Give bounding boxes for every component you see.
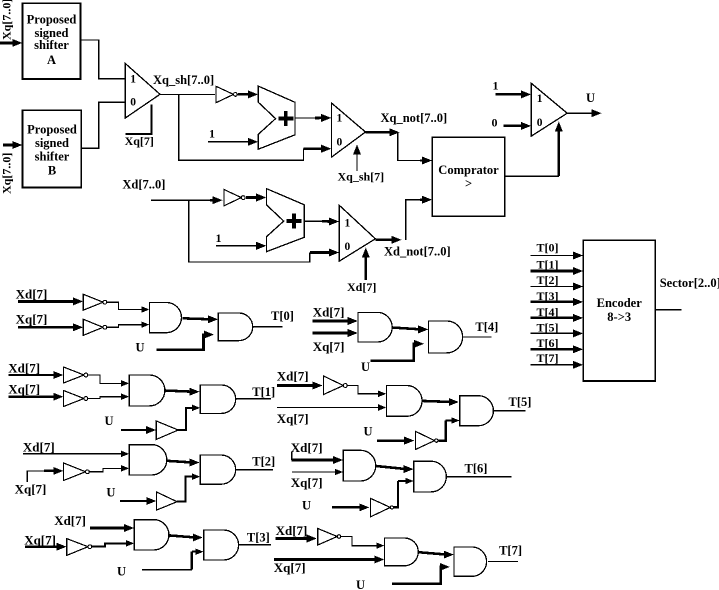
wire shifter B output to mux M1 input 0: [81, 102, 125, 148]
AND gate T3-G1: [134, 520, 169, 550]
svg-text:signed: signed: [35, 136, 69, 150]
svg-text:Xd[7]: Xd[7]: [313, 305, 345, 320]
wire T[2] output: [236, 469, 274, 471]
svg-text:T[5]: T[5]: [537, 320, 559, 334]
wire Xq[7] into AND gate T5-G1: [277, 407, 381, 409]
AND gate T7-G1: [385, 538, 419, 566]
wire buffer T5buf to AND gate T5-G2: [438, 421, 445, 441]
wire mux M4 select from Xd[7]: [365, 255, 367, 281]
AND gate T3-G2: [204, 530, 239, 560]
svg-text:T[0]: T[0]: [271, 309, 294, 323]
svg-text:Xd[7]: Xd[7]: [16, 287, 48, 302]
buffer T6buf (inverting): [370, 498, 390, 517]
svg-text:1: 1: [345, 218, 351, 230]
svg-text:U: U: [117, 565, 126, 579]
svg-text:T[5]: T[5]: [509, 395, 532, 409]
svg-text:shifter: shifter: [34, 38, 69, 52]
inverter T0b: [83, 319, 103, 335]
AND gate T4-G2: [428, 321, 462, 353]
wire inverter T1b to AND gate T1-G1: [88, 397, 124, 399]
svg-text:Xd[7]: Xd[7]: [8, 361, 40, 376]
svg-text:U: U: [356, 578, 365, 590]
block Proposed signed shifter A: [23, 3, 81, 79]
svg-text:Xq[7..0]: Xq[7..0]: [0, 0, 14, 40]
svg-text:Xd[7]: Xd[7]: [291, 440, 323, 455]
wire Xq[7] into AND gate T6-G1: [292, 471, 338, 473]
mux M2 (Xq_not select): [331, 103, 365, 157]
AND gate T7-G2: [454, 547, 487, 576]
svg-text:0: 0: [492, 116, 498, 130]
svg-text:Xd[7]: Xd[7]: [347, 280, 376, 294]
wire T[0] output: [253, 326, 283, 328]
wire buffer T6buf to AND gate T6-G2: [394, 481, 399, 507]
AND gate T5-G1: [386, 386, 422, 417]
svg-text:U: U: [302, 499, 311, 513]
svg-text:T[7]: T[7]: [499, 544, 522, 558]
wire Xq[7] into inverter T2a: [27, 471, 48, 482]
mux M1 (Xq_sh select): [125, 64, 160, 119]
wire adder A2 output to mux M4 input 1: [304, 220, 325, 222]
wire T[5] output: [493, 410, 525, 412]
svg-text:1: 1: [537, 93, 543, 105]
svg-text:Sector[2..0]: Sector[2..0]: [660, 276, 719, 290]
wire Xd[7] into AND gate T6-G1: [291, 452, 293, 460]
svg-text:Xq_not[7..0]: Xq_not[7..0]: [381, 111, 448, 125]
wire T3-G1 output to AND gate T3-G2: [169, 535, 196, 537]
wire T[4] into encoder: [530, 317, 576, 320]
AND gate T2-G2: [200, 455, 235, 484]
wire T2-G1 output to AND gate T2-G2: [167, 461, 193, 463]
block Encoder 8->3: [583, 240, 655, 381]
wire adder A1 output to mux M2 input 1: [295, 117, 318, 119]
wire Xd[7] into inverter T5a: [277, 384, 316, 387]
inverter T0a: [83, 294, 103, 310]
svg-text:0: 0: [337, 136, 343, 148]
wire constant 1 into adder A1: [208, 141, 251, 143]
svg-text:Xq[7]: Xq[7]: [291, 475, 323, 490]
wire U into AND gate T4-G2: [371, 344, 418, 361]
svg-text:Xd[7..0]: Xd[7..0]: [122, 178, 165, 192]
wire T[1] output: [236, 398, 271, 400]
wire U into AND gate T0-G2: [156, 335, 207, 350]
wire Xd[7] into AND gate T4-G1: [313, 320, 351, 323]
wire inverter T0a to AND gate T0-G1: [107, 302, 144, 309]
wire Xd[7] into inverter T1a: [8, 374, 56, 376]
wire T[6] into encoder: [530, 348, 576, 351]
svg-text:Xq[7]: Xq[7]: [313, 339, 345, 354]
svg-text:0: 0: [537, 117, 543, 129]
svg-text:U: U: [586, 91, 595, 105]
wire shifter A output to mux M1 input 1: [81, 40, 126, 79]
svg-text:Xq[7]: Xq[7]: [16, 312, 48, 327]
block Comprator >: [432, 137, 505, 216]
AND gate T1-G2: [200, 385, 235, 413]
wire T[6] output: [446, 476, 511, 478]
wire T[7] output: [488, 560, 518, 562]
svg-text:T[6]: T[6]: [465, 462, 488, 476]
wire U into buffer T1buf: [121, 429, 149, 431]
svg-text:Xq[7]: Xq[7]: [274, 560, 306, 575]
mux M3 (U select): [531, 83, 567, 136]
wire constant 1 into mux M3: [496, 93, 524, 96]
wire T7-G1 output to AND gate T7-G2: [418, 552, 447, 554]
wire Xd input to inverter I2: [151, 199, 214, 201]
svg-text:0: 0: [345, 241, 351, 253]
buffer T5buf (inverting): [416, 431, 435, 449]
wire encoder output Sector: [655, 309, 681, 311]
mux M4 (Xd_not select): [339, 205, 375, 261]
svg-text:T[4]: T[4]: [475, 320, 498, 334]
wire inverter T2a to AND gate T2-G1: [89, 468, 124, 471]
adder A2 (Xd path +1): [266, 189, 304, 252]
svg-text:1: 1: [130, 74, 136, 86]
wire comparator output to mux M3 select: [505, 175, 559, 177]
AND gate T4-G1: [358, 312, 392, 342]
wire T5-G1 output to AND gate T5-G2: [422, 401, 452, 402]
wire inverter T3a to AND gate T3-G1: [92, 543, 127, 546]
wire inverter T0b to AND gate T0-G1: [107, 325, 144, 328]
svg-text:T[2]: T[2]: [537, 273, 559, 287]
svg-text:Encoder: Encoder: [597, 296, 643, 310]
wire U into AND gate T3-G2: [142, 569, 192, 571]
svg-text:B: B: [48, 163, 56, 177]
svg-text:Proposed: Proposed: [27, 122, 77, 136]
svg-text:U: U: [364, 425, 373, 439]
svg-text:1: 1: [493, 79, 499, 93]
inverter T5a: [324, 376, 344, 395]
wire inverter T1a to AND gate T1-G1: [88, 375, 124, 383]
wire Xq[7] into inverter T3a: [25, 545, 60, 548]
svg-text:T[7]: T[7]: [537, 351, 559, 365]
wire T[3] output: [239, 544, 272, 546]
svg-text:U: U: [136, 340, 145, 354]
wire T1-G1 output to AND gate T1-G2: [165, 391, 193, 392]
AND gate T6-G2: [414, 461, 447, 492]
wire Xd bypass branch to mux M4 input 0: [189, 200, 310, 262]
svg-text:Xq_sh[7]: Xq_sh[7]: [338, 169, 385, 183]
buffer T2buf: [157, 492, 178, 510]
svg-text:Xd_not[7..0]: Xd_not[7..0]: [384, 245, 451, 259]
svg-text:Xd[7]: Xd[7]: [277, 369, 309, 384]
svg-text:Proposed: Proposed: [27, 12, 77, 26]
wire T[7] into encoder: [530, 364, 576, 366]
AND gate T0-G2: [218, 313, 253, 341]
wire constant 0 into mux M3: [503, 125, 524, 128]
svg-text:Xd[7]: Xd[7]: [276, 523, 308, 538]
wire mux M3 output U: [567, 112, 594, 114]
wire mux M2 output Xq_not to comparator: [366, 131, 393, 134]
wire U into AND gate T7-G2: [392, 567, 443, 584]
wire input arrow into shifter B: [3, 144, 15, 147]
svg-text:1: 1: [337, 113, 343, 125]
wire T[1] into encoder: [530, 270, 576, 273]
svg-text:Xd[7]: Xd[7]: [23, 440, 55, 455]
wire T[4] output: [463, 336, 492, 338]
svg-text:T[1]: T[1]: [252, 385, 275, 399]
svg-text:Xq[7]: Xq[7]: [8, 381, 40, 396]
svg-text:T[6]: T[6]: [537, 336, 559, 350]
svg-text:shifter: shifter: [35, 149, 70, 163]
inverter T2a: [64, 463, 86, 481]
wire U into buffer T2buf: [120, 500, 149, 502]
wire Xd[7] into inverter T0a: [18, 300, 76, 303]
svg-text:U: U: [106, 486, 115, 500]
inverter I1 (Xq path): [216, 86, 234, 102]
svg-text:Xq[7]: Xq[7]: [15, 481, 47, 496]
wire buffer T1buf to AND gate T1-G2: [178, 408, 195, 430]
svg-text:T[3]: T[3]: [247, 531, 270, 545]
block Proposed signed shifter B: [23, 110, 82, 187]
AND gate T1-G1: [129, 375, 165, 406]
svg-text:Xd[7]: Xd[7]: [54, 513, 86, 528]
AND gate T0-G1: [150, 303, 182, 333]
wire mux M2 select from Xq_sh[7]: [356, 152, 358, 172]
wire mux M1 output to inverter I1: [160, 93, 215, 95]
svg-text:T[1]: T[1]: [537, 257, 559, 271]
svg-text:Xq[7]: Xq[7]: [125, 134, 154, 148]
wire Xq[7] into AND gate T7-G1: [274, 558, 378, 561]
wire T[0] into encoder: [530, 255, 576, 257]
svg-text:Xq_sh[7..0]: Xq_sh[7..0]: [153, 73, 214, 87]
adder A1 (Xq path +1): [258, 86, 295, 149]
wire T[2] into encoder: [530, 286, 576, 288]
svg-text:1: 1: [209, 127, 215, 141]
wire mux M4 output Xd_not to comparator: [375, 239, 394, 242]
inverter T3a: [67, 539, 88, 556]
inverter T7a: [318, 529, 337, 546]
wire inverter T5a to AND gate T5-G1: [347, 386, 381, 394]
wire inverter I1 output to adder A1: [238, 93, 251, 96]
inverter T1a: [64, 367, 85, 383]
svg-text:1: 1: [216, 231, 222, 245]
inverter I2 (Xd path): [224, 190, 241, 206]
svg-text:0: 0: [130, 96, 136, 108]
wire inverter T7a to AND gate T7-G1: [341, 537, 379, 546]
wire Xd[7] into inverter T7a: [276, 537, 310, 540]
svg-text:Xq[7]: Xq[7]: [277, 411, 309, 426]
wire U into buffer T6buf: [332, 506, 362, 509]
wire U into buffer T5buf: [377, 439, 407, 442]
wire Xq_sh bypass branch to mux M2 input 0: [179, 94, 304, 160]
AND gate T5-G2: [460, 396, 494, 426]
wire mux M1 select from Xq[7]: [125, 105, 151, 134]
svg-text:>: >: [465, 177, 472, 191]
wire input arrow into shifter A: [0, 42, 15, 45]
svg-text:Xq[7..0]: Xq[7..0]: [0, 153, 14, 194]
wire Xq[7] into inverter T0b: [18, 326, 76, 329]
wire Xd[7] into AND gate T2-G1: [23, 453, 124, 455]
svg-text:U: U: [105, 414, 114, 428]
buffer T1buf: [156, 421, 178, 439]
wire T[3] into encoder: [530, 301, 576, 304]
svg-text:8->3: 8->3: [607, 310, 631, 324]
wire inverter I2 output to adder A2: [246, 196, 259, 199]
wire T6-G1 output to AND gate T6-G2: [376, 466, 407, 469]
svg-text:T[0]: T[0]: [537, 240, 559, 254]
wire T4-G1 output to AND gate T4-G2: [392, 328, 421, 330]
wire buffer T2buf to AND gate T2-G2: [177, 477, 195, 502]
svg-text:Comprator: Comprator: [438, 163, 499, 177]
inverter T1b: [64, 391, 85, 407]
wire Xq[7] into inverter T1b: [8, 395, 56, 398]
AND gate T6-G1: [343, 450, 375, 481]
wire constant 1 into adder A2: [216, 245, 259, 247]
wire Xq[7] into AND gate T4-G1: [313, 332, 351, 335]
wire T0-G1 output to AND gate T0-G2: [183, 318, 211, 319]
wire T[5] into encoder: [530, 332, 576, 334]
svg-text:U: U: [361, 360, 370, 374]
wire Xd[7] into AND gate T3-G1: [90, 527, 127, 530]
AND gate T2-G1: [129, 445, 167, 475]
svg-text:T[2]: T[2]: [252, 455, 275, 469]
svg-text:A: A: [47, 53, 56, 67]
